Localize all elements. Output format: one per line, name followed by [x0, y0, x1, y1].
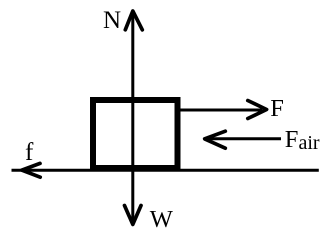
- svg-text:N: N: [103, 7, 121, 34]
- svg-text:air: air: [299, 132, 320, 154]
- svg-text:F: F: [285, 126, 299, 153]
- svg-text:W: W: [150, 206, 174, 233]
- svg-text:f: f: [25, 139, 34, 166]
- svg-text:F: F: [270, 95, 284, 122]
